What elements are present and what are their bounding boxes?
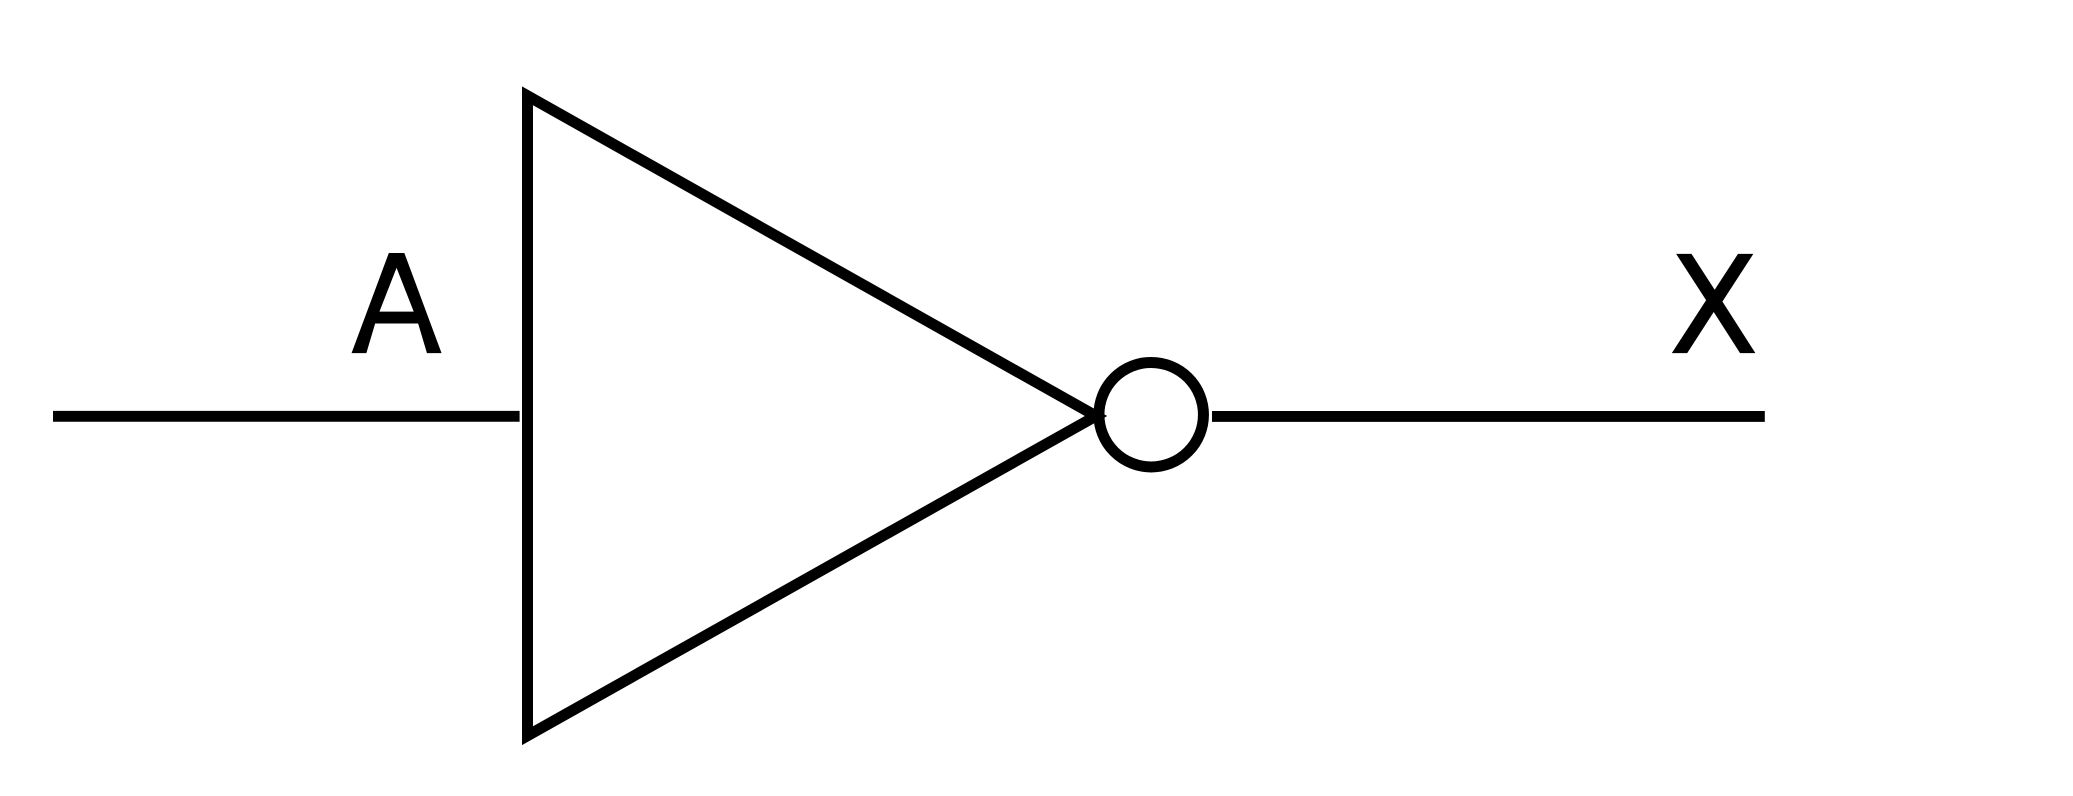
node X label <box>1673 255 1754 353</box>
output wire (net X) <box>1212 411 1765 422</box>
inverter U1 output bubble <box>1099 362 1204 467</box>
input wire (net A) <box>53 411 520 422</box>
node A label <box>352 253 441 352</box>
inverter U1 triangle body <box>528 96 1097 736</box>
